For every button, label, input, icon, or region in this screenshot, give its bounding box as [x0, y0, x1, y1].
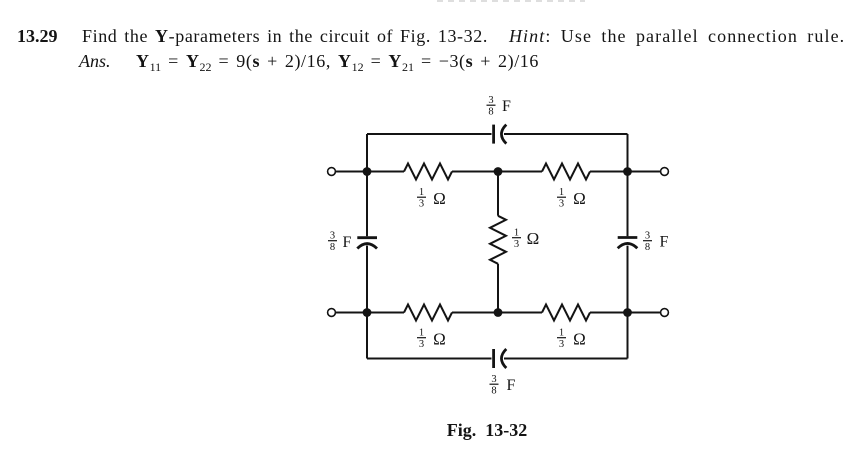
- svg-text:F: F: [502, 98, 511, 115]
- svg-text:3: 3: [514, 239, 519, 250]
- svg-text:8: 8: [488, 107, 493, 118]
- svg-text:8: 8: [491, 386, 496, 397]
- svg-text:F: F: [343, 234, 352, 251]
- svg-text:Ω: Ω: [573, 330, 586, 349]
- svg-text:3: 3: [488, 95, 493, 106]
- svg-text:3: 3: [491, 374, 496, 385]
- svg-text:Ω: Ω: [433, 189, 446, 208]
- svg-text:3: 3: [559, 199, 564, 210]
- svg-text:F: F: [507, 377, 516, 394]
- svg-text:1: 1: [419, 328, 424, 339]
- svg-text:3: 3: [559, 339, 564, 350]
- svg-text:3: 3: [419, 339, 424, 350]
- svg-text:3: 3: [330, 231, 335, 242]
- svg-text:1: 1: [559, 328, 564, 339]
- svg-text:1: 1: [514, 228, 519, 239]
- svg-text:8: 8: [330, 242, 335, 253]
- svg-text:3: 3: [645, 231, 650, 242]
- svg-text:Ω: Ω: [433, 330, 446, 349]
- svg-text:Fig. 13-32: Fig. 13-32: [447, 420, 528, 440]
- svg-text:F: F: [660, 234, 669, 251]
- svg-text:Ω: Ω: [573, 189, 586, 208]
- svg-text:1: 1: [559, 187, 564, 198]
- svg-text:8: 8: [645, 242, 650, 253]
- svg-text:3: 3: [419, 199, 424, 210]
- svg-text:1: 1: [419, 187, 424, 198]
- svg-text:Ω: Ω: [527, 229, 540, 248]
